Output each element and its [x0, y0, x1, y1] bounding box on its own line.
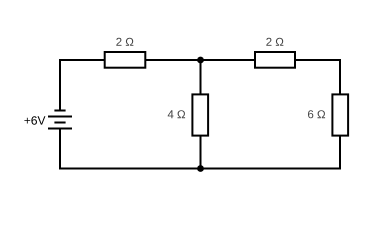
wire bottom: [60, 168, 340, 170]
wire right vertical: [339, 59, 341, 170]
label 6Ω for R4: [308, 110, 325, 118]
wire middle vertical: [200, 60, 202, 169]
resistor R2 2Ω box: [255, 52, 295, 68]
label 4Ω for R3: [168, 110, 185, 118]
node junction top: [197, 57, 204, 64]
label 2Ω for R1: [116, 38, 133, 46]
label +6V: [24, 116, 45, 125]
wire top: [60, 59, 340, 61]
node junction bottom: [197, 165, 204, 172]
resistor R4 6Ω box: [332, 94, 348, 135]
battery V1 plate long upper: [48, 116, 72, 118]
wire left vertical lower: [59, 129, 61, 170]
battery V1 plate long bottom: [48, 128, 72, 130]
resistor R1 2Ω box: [105, 52, 146, 68]
resistor R3 4Ω box: [192, 94, 208, 135]
label 2Ω for R2: [266, 38, 283, 46]
battery V1 plate short top: [54, 110, 65, 112]
battery V1 plate short lower: [54, 122, 65, 124]
wire left vertical upper: [59, 59, 61, 111]
